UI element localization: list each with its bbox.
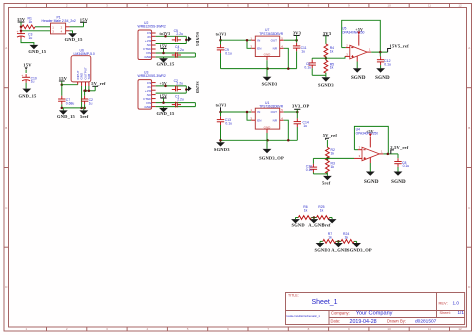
- svg-text:GND_15: GND_15: [57, 114, 75, 119]
- svg-text:10: 10: [387, 327, 391, 331]
- svg-text:2.2u: 2.2u: [176, 82, 183, 86]
- svg-text:SGND3: SGND3: [315, 248, 331, 253]
- svg-text:15V: 15V: [59, 76, 68, 81]
- svg-text:1k: 1k: [345, 236, 349, 240]
- svg-text:B: B: [5, 126, 7, 130]
- svg-text:15V: 15V: [23, 62, 32, 67]
- svg-text:GND_15: GND_15: [65, 37, 83, 42]
- svg-text:B: B: [468, 126, 470, 130]
- svg-text:15V: 15V: [17, 17, 26, 22]
- svg-text:IN: IN: [257, 38, 260, 42]
- svg-text:1k: 1k: [331, 152, 335, 156]
- svg-text:1k: 1k: [328, 236, 332, 240]
- svg-text:Drawn By:: Drawn By:: [387, 319, 406, 324]
- svg-text:SGND: SGND: [364, 180, 379, 185]
- svg-text:0.1u: 0.1u: [225, 51, 232, 55]
- svg-text:+5V: +5V: [355, 27, 363, 32]
- svg-text:1k: 1k: [304, 208, 308, 212]
- svg-text:SGND3_OP: SGND3_OP: [259, 156, 284, 161]
- svg-text:GND: GND: [144, 105, 152, 109]
- svg-text:SGND3: SGND3: [262, 82, 278, 87]
- svg-text:2.2u: 2.2u: [177, 97, 184, 101]
- svg-text:IN: IN: [257, 110, 260, 114]
- svg-text:0.1u: 0.1u: [403, 164, 410, 168]
- svg-text:1/1: 1/1: [458, 310, 465, 315]
- svg-text:3V3: 3V3: [323, 31, 332, 36]
- svg-text:0.1u: 0.1u: [225, 122, 232, 126]
- svg-text:15V5_ref: 15V5_ref: [390, 43, 410, 48]
- svg-text:15V: 15V: [80, 17, 89, 22]
- svg-text:SGND3_OP: SGND3_OP: [347, 248, 372, 253]
- svg-text:5V_ref: 5V_ref: [91, 81, 106, 86]
- svg-text:1k: 1k: [330, 49, 334, 53]
- svg-text:SGND: SGND: [351, 76, 366, 81]
- svg-text:12: 12: [458, 327, 462, 331]
- svg-text:11: 11: [428, 327, 431, 331]
- svg-text:SGND: SGND: [195, 81, 200, 93]
- svg-text:Sheet:: Sheet:: [440, 310, 451, 315]
- svg-text:3V3: 3V3: [293, 31, 302, 36]
- svg-text:GND: GND: [264, 126, 272, 130]
- svg-text:to3V3: to3V3: [216, 104, 227, 108]
- svg-text:+: +: [21, 74, 23, 78]
- svg-text:EN: EN: [257, 46, 261, 50]
- svg-text:1.0: 1.0: [453, 300, 460, 305]
- svg-text:TITLE:: TITLE:: [288, 294, 299, 298]
- svg-text:1u: 1u: [301, 50, 305, 54]
- svg-text:SGND3: SGND3: [195, 32, 200, 46]
- svg-text:5ref: 5ref: [322, 180, 331, 185]
- svg-text:Date:: Date:: [331, 319, 341, 324]
- svg-text:GND_15: GND_15: [28, 49, 46, 54]
- svg-text:d0281507: d0281507: [415, 319, 437, 325]
- svg-text:TAB: TAB: [87, 74, 91, 80]
- svg-text:1k: 1k: [320, 208, 324, 212]
- svg-text:Header Male 2.54_2x2: Header Male 2.54_2x2: [42, 19, 76, 23]
- svg-text:1u: 1u: [29, 36, 33, 40]
- svg-text:10: 10: [387, 4, 391, 8]
- svg-text:+5V: +5V: [366, 129, 374, 134]
- svg-text:A: A: [5, 46, 7, 50]
- svg-text:OUT: OUT: [271, 38, 278, 42]
- svg-text:3V3_OP: 3V3_OP: [292, 104, 310, 109]
- svg-text:5ref: 5ref: [322, 223, 331, 228]
- svg-text:WRB1205S-3WR2: WRB1205S-3WR2: [138, 74, 166, 78]
- svg-text:GND_15: GND_15: [157, 61, 175, 66]
- svg-text:SGND: SGND: [391, 180, 406, 185]
- svg-text:SGND3: SGND3: [214, 147, 230, 152]
- svg-text:5V_ref: 5V_ref: [323, 133, 338, 138]
- svg-text:1u: 1u: [31, 80, 35, 84]
- svg-text:REV:: REV:: [439, 300, 448, 305]
- svg-text:1k: 1k: [330, 66, 334, 70]
- svg-text:2.2u: 2.2u: [177, 48, 184, 52]
- svg-text:0.1u: 0.1u: [304, 65, 311, 69]
- svg-text:GND_15: GND_15: [157, 111, 175, 116]
- svg-text:1u: 1u: [303, 124, 307, 128]
- svg-text:WRB1205S-3WR2: WRB1205S-3WR2: [138, 24, 166, 28]
- svg-text:to3V3: to3V3: [216, 32, 227, 36]
- svg-text:lceda.cn/editor/schematic_1: lceda.cn/editor/schematic_1: [287, 314, 321, 318]
- svg-text:0.1u: 0.1u: [306, 168, 313, 172]
- svg-text:+: +: [17, 30, 19, 34]
- svg-text:5ref: 5ref: [80, 114, 89, 119]
- svg-text:Sheet_1: Sheet_1: [312, 299, 338, 306]
- svg-text:TPS73633DBVR: TPS73633DBVR: [259, 105, 284, 109]
- svg-text:11: 11: [428, 4, 431, 8]
- svg-text:SGND: SGND: [292, 223, 306, 228]
- svg-text:GND: GND: [144, 55, 152, 59]
- svg-text:GND: GND: [264, 52, 272, 56]
- svg-text:GND_15: GND_15: [19, 93, 37, 98]
- svg-text:1k: 1k: [331, 165, 335, 169]
- svg-text:0.1u: 0.1u: [384, 62, 391, 66]
- svg-text:EN: EN: [257, 118, 261, 122]
- svg-text:0.68u: 0.68u: [66, 101, 75, 105]
- svg-text:TPS73633DBVR: TPS73633DBVR: [259, 32, 284, 36]
- svg-text:1k: 1k: [29, 20, 33, 24]
- svg-text:2019-04-28: 2019-04-28: [350, 319, 377, 325]
- svg-text:OUT: OUT: [271, 110, 278, 114]
- svg-text:12: 12: [458, 4, 462, 8]
- svg-text:2.2u: 2.2u: [176, 32, 183, 36]
- svg-text:1u: 1u: [89, 101, 93, 105]
- svg-text:A: A: [468, 46, 470, 50]
- svg-text:A_GND: A_GND: [331, 248, 348, 253]
- svg-text:Your Company: Your Company: [356, 311, 393, 317]
- svg-text:SGND: SGND: [375, 76, 390, 81]
- svg-text:SGND3: SGND3: [318, 82, 334, 87]
- svg-text:Company:: Company:: [331, 310, 350, 315]
